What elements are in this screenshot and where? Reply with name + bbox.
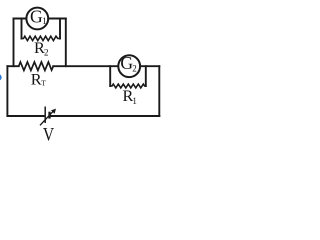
svg-text:1: 1 <box>132 96 137 106</box>
svg-text:T: T <box>41 79 46 88</box>
svg-text:V: V <box>43 124 55 145</box>
svg-text:2: 2 <box>44 48 49 58</box>
svg-text:G: G <box>30 6 43 26</box>
svg-text:1: 1 <box>42 16 47 26</box>
svg-text:2: 2 <box>132 64 137 74</box>
